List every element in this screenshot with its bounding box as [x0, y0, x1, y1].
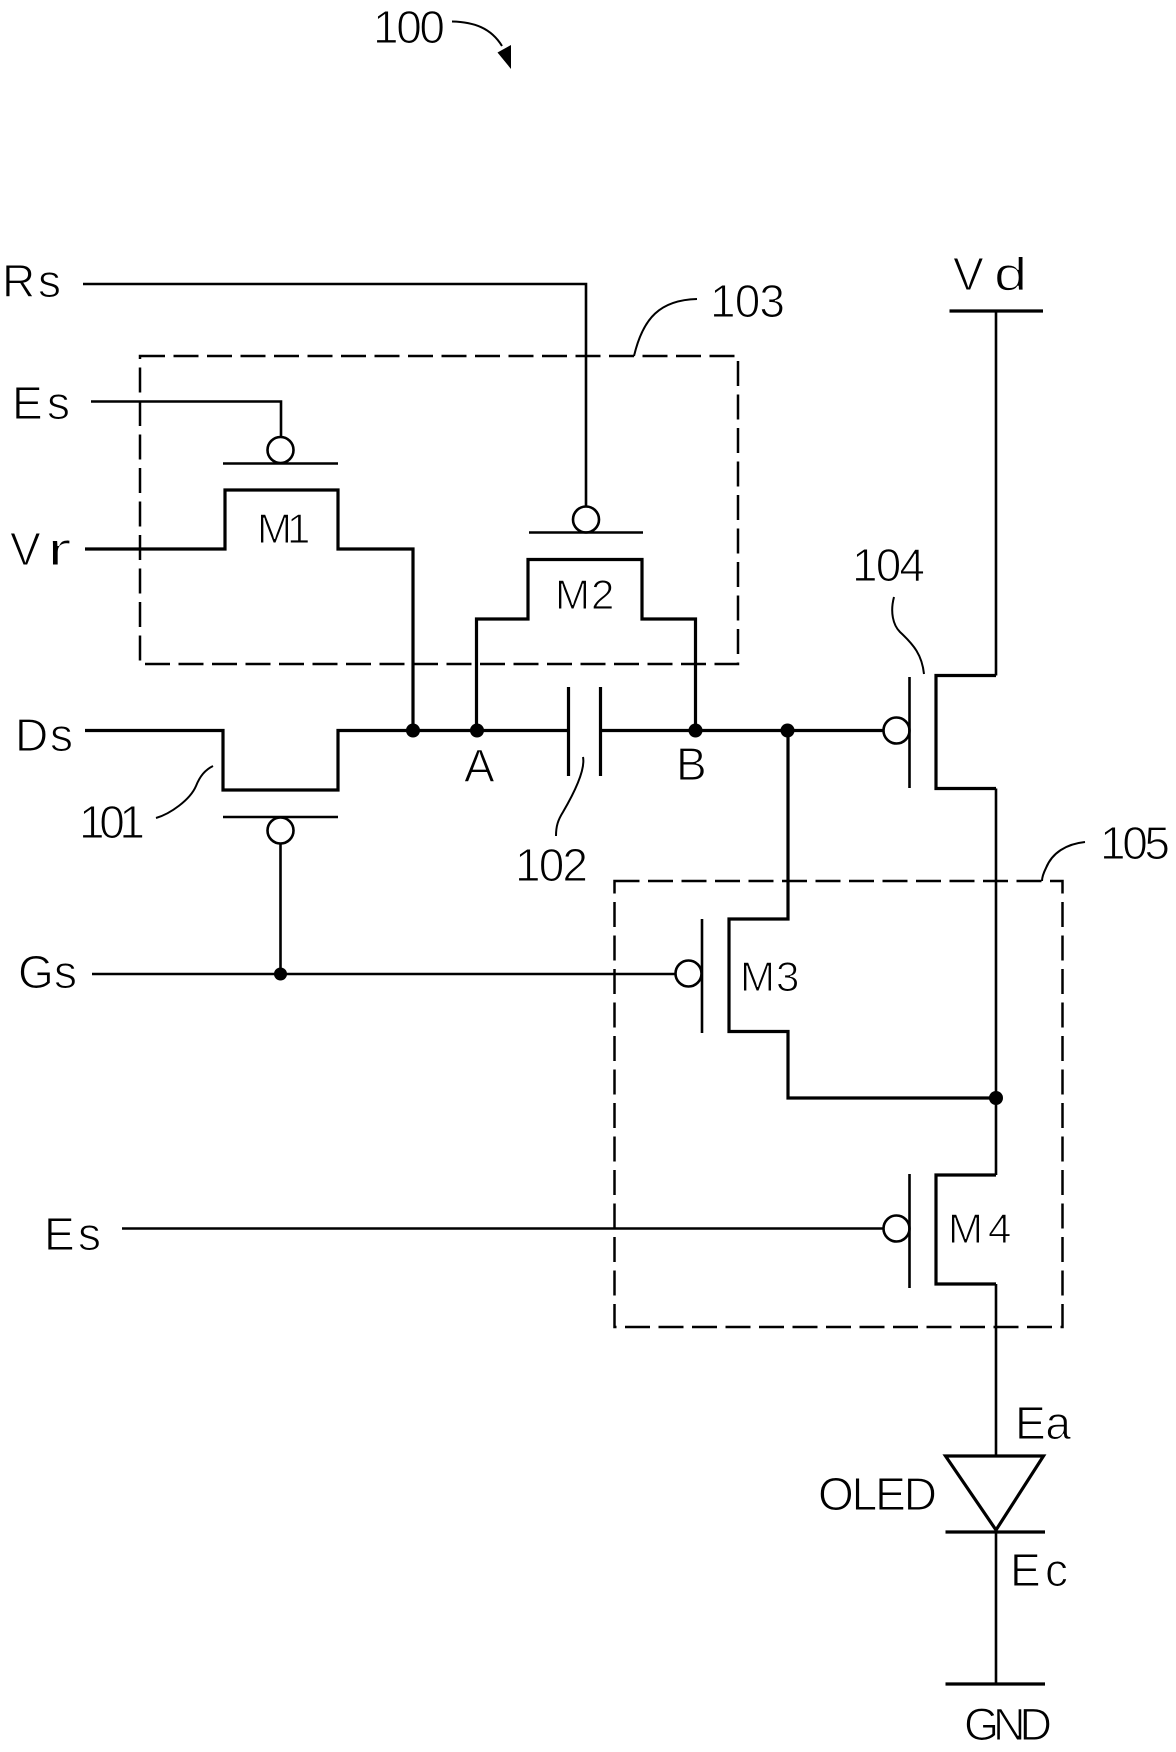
svg-text:102: 102: [515, 839, 588, 891]
svg-text:Es: Es: [12, 377, 70, 429]
svg-text:1: 1: [287, 505, 310, 552]
svg-text:3: 3: [776, 953, 799, 1000]
svg-text:Ea: Ea: [1015, 1397, 1071, 1449]
svg-text:V: V: [953, 248, 984, 300]
svg-text:2: 2: [591, 571, 614, 618]
svg-text:V: V: [10, 523, 41, 575]
svg-text:Gs: Gs: [18, 946, 77, 998]
svg-text:B: B: [676, 738, 707, 790]
svg-text:Ds: Ds: [15, 709, 73, 761]
svg-text:M: M: [555, 571, 590, 618]
svg-text:Es: Es: [44, 1208, 101, 1260]
svg-text:M: M: [948, 1205, 983, 1252]
svg-text:r: r: [47, 524, 72, 576]
svg-text:101: 101: [79, 796, 145, 848]
svg-text:d: d: [994, 249, 1027, 300]
svg-text:4: 4: [988, 1205, 1011, 1252]
svg-text:M: M: [740, 953, 775, 1000]
svg-text:103: 103: [710, 275, 785, 327]
svg-text:GND: GND: [964, 1699, 1052, 1750]
svg-text:105: 105: [1100, 817, 1170, 869]
svg-text:100: 100: [373, 1, 445, 53]
svg-text:A: A: [464, 740, 495, 792]
svg-text:104: 104: [852, 539, 925, 591]
svg-text:Rs: Rs: [2, 255, 61, 307]
svg-text:OLED: OLED: [818, 1468, 937, 1520]
svg-text:Ec: Ec: [1010, 1544, 1068, 1596]
